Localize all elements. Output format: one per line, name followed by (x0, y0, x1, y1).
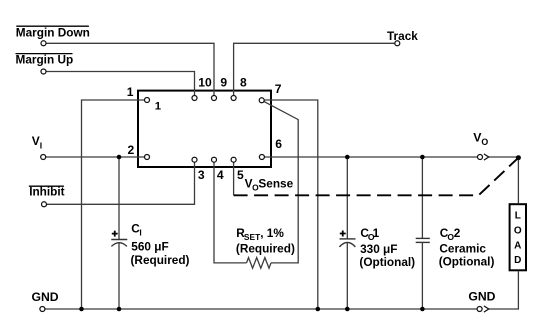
svg-text:(Optional): (Optional) (439, 255, 495, 269)
svg-text:1: 1 (127, 85, 134, 99)
svg-text:(Required): (Required) (236, 242, 295, 256)
svg-text:RSET, 1%: RSET, 1% (236, 226, 284, 242)
svg-text:1: 1 (155, 101, 162, 113)
svg-text:VOSense: VOSense (245, 177, 294, 193)
svg-text:Margin Up: Margin Up (16, 53, 74, 67)
svg-text:L: L (515, 211, 521, 222)
svg-text:O: O (514, 225, 522, 236)
svg-text:330 μF: 330 μF (360, 242, 397, 256)
svg-text:9: 9 (220, 75, 227, 89)
svg-text:(Required): (Required) (131, 253, 190, 267)
svg-text:GND: GND (32, 290, 59, 304)
svg-text:A: A (514, 240, 521, 251)
svg-text:Track: Track (387, 29, 418, 43)
svg-text:5: 5 (237, 168, 244, 182)
svg-text:3: 3 (198, 168, 205, 182)
svg-text:D: D (514, 255, 521, 266)
svg-text:(Optional): (Optional) (359, 255, 415, 269)
svg-text:Margin Down: Margin Down (16, 26, 90, 40)
svg-text:Ceramic: Ceramic (439, 241, 486, 255)
svg-text:GND: GND (468, 290, 495, 304)
svg-text:6: 6 (275, 137, 282, 151)
svg-text:10: 10 (198, 75, 212, 89)
svg-text:560 μF: 560 μF (131, 240, 168, 254)
svg-text:4: 4 (217, 168, 224, 182)
svg-text:8: 8 (240, 75, 247, 89)
svg-text:2: 2 (128, 143, 135, 157)
svg-text:Inhibit: Inhibit (29, 184, 64, 198)
svg-text:7: 7 (275, 82, 282, 96)
